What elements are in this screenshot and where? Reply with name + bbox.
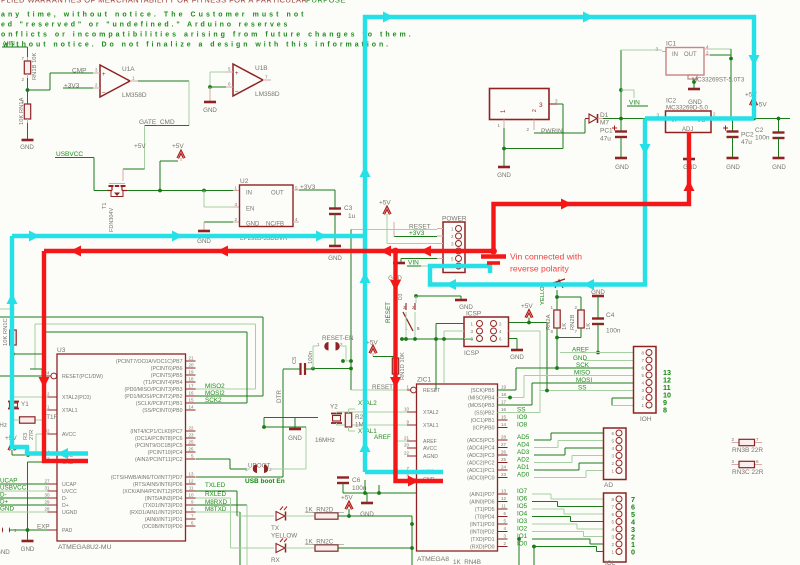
svg-text:16: 16 xyxy=(188,391,194,396)
pin digits 13-8 at IOH xyxy=(663,368,671,415)
svg-text:11: 11 xyxy=(189,486,194,491)
node C5 right xyxy=(311,367,351,371)
wire MISO staircase xyxy=(498,376,561,400)
wire POWER +3V3 xyxy=(394,222,437,237)
svg-text:28: 28 xyxy=(501,435,507,440)
svg-text:12: 12 xyxy=(501,496,507,501)
svg-text:(PCINT7/OC0A/VOC1C)PB7: (PCINT7/OC0A/VOC1C)PB7 xyxy=(116,359,183,365)
net symbol L YELLOW xyxy=(540,279,565,305)
svg-text:IOL: IOL xyxy=(605,560,616,565)
capacitor PC1 47u xyxy=(600,119,627,158)
svg-text:TX: TX xyxy=(271,525,280,532)
ic ZIC1 left pins xyxy=(404,385,441,484)
svg-text:RN1D 10K: RN1D 10K xyxy=(400,352,406,380)
svg-text:GND: GND xyxy=(197,238,211,245)
svg-text:PAD: PAD xyxy=(62,528,73,534)
node PWRIN ground junction xyxy=(502,147,506,166)
svg-text:21: 21 xyxy=(188,356,194,361)
net label SCK xyxy=(560,362,634,369)
resistor RN2C 1K xyxy=(305,539,344,552)
svg-text:10K RN1A: 10K RN1A xyxy=(19,97,25,125)
wire VIN vertical to IC1 xyxy=(621,50,666,119)
ground at ICSP xyxy=(510,350,524,361)
svg-text:(T0)PD4: (T0)PD4 xyxy=(475,515,495,521)
svg-text:D+: D+ xyxy=(62,503,69,509)
svg-text:+5V: +5V xyxy=(341,495,353,502)
svg-text:C4: C4 xyxy=(606,312,615,319)
svg-text:47u: 47u xyxy=(741,139,752,146)
wire MOSI staircase xyxy=(498,383,561,405)
red arrows xyxy=(39,180,695,487)
svg-text:(AIN0)PD6: (AIN0)PD6 xyxy=(469,500,494,506)
connector POWER xyxy=(437,216,467,273)
svg-text:(INT1)PD3: (INT1)PD3 xyxy=(470,522,495,528)
net label AREF left of ZIC1 xyxy=(374,434,407,441)
+5V supply at POWER pin3 xyxy=(379,200,437,244)
pin digits 7-0 at IOL xyxy=(631,495,635,557)
svg-text:16: 16 xyxy=(501,407,507,412)
svg-text:+: + xyxy=(102,72,106,78)
net label 16MHz at Y1 xyxy=(0,422,7,429)
svg-text:GATE_CMD: GATE_CMD xyxy=(139,119,175,126)
svg-text:(ADC3)PC3: (ADC3)PC3 xyxy=(467,453,494,459)
svg-text:GND: GND xyxy=(497,172,511,179)
+5V supply at T1 xyxy=(160,143,185,191)
resistor RN2B 1K xyxy=(570,297,592,338)
svg-text:PLIED WARRANTIES OF MERCHANTAB: PLIED WARRANTIES OF MERCHANTABILITY OR F… xyxy=(1,0,307,5)
crystal Y2 xyxy=(330,404,355,426)
svg-text:GND: GND xyxy=(328,255,342,262)
svg-text:GND: GND xyxy=(0,549,10,556)
svg-text:VIN: VIN xyxy=(4,41,15,48)
svg-text:(INT4/ICP1/CLK0)PC7: (INT4/ICP1/CLK0)PC7 xyxy=(130,429,182,435)
node IC1 out junction xyxy=(729,57,733,61)
wire SS staircase xyxy=(498,389,561,413)
svg-text:15: 15 xyxy=(501,415,507,420)
svg-text:27R: 27R xyxy=(29,430,35,440)
svg-text:23: 23 xyxy=(188,433,194,438)
highlight cyan 5V path xyxy=(12,17,754,472)
svg-text:_: _ xyxy=(234,86,239,92)
wire UBOOT to Y2 gnd xyxy=(262,418,306,470)
wire U2 EN loop xyxy=(204,191,240,208)
svg-text:UGND: UGND xyxy=(62,510,78,516)
net label +3V3 at U1A xyxy=(64,83,80,90)
net label SS at IOH xyxy=(560,385,634,392)
svg-text:19: 19 xyxy=(188,370,194,375)
ground below C3 xyxy=(328,246,342,262)
net label 16MHz at Y2 xyxy=(315,437,335,444)
connector IOL xyxy=(604,493,627,565)
wire GATE_CMD down to T1 gate xyxy=(123,126,145,182)
svg-text:GND: GND xyxy=(20,144,34,151)
svg-text:XTAL1: XTAL1 xyxy=(423,423,439,429)
wire POWER RESET xyxy=(351,229,437,231)
svg-text:18: 18 xyxy=(501,392,507,397)
svg-text:GND: GND xyxy=(21,546,35,553)
wire IOL staircases xyxy=(532,494,604,552)
svg-text:27: 27 xyxy=(44,479,50,484)
diode D1 M7 xyxy=(585,112,609,127)
net label GND at IOH xyxy=(573,355,634,362)
net label TXLED xyxy=(196,482,238,491)
wire DTR net xyxy=(196,370,283,478)
svg-text:(PD0/MISO/PCINT3)PB3: (PD0/MISO/PCINT3)PB3 xyxy=(125,387,183,393)
svg-text:+5V: +5V xyxy=(172,143,184,150)
svg-text:VIN: VIN xyxy=(629,100,640,107)
wire RESET vertical xyxy=(351,230,407,391)
svg-text:XTAL2: XTAL2 xyxy=(358,400,377,407)
svg-text:17: 17 xyxy=(501,400,507,405)
net label M8RXD xyxy=(196,499,248,506)
net label D- left xyxy=(0,492,48,499)
svg-text:OUT: OUT xyxy=(684,52,697,58)
wire IC1 output to +5V rail xyxy=(709,49,731,119)
svg-text:XTAL2(PC0): XTAL2(PC0) xyxy=(62,395,91,401)
svg-text:(PCINT10)PC4: (PCINT10)PC4 xyxy=(148,450,183,456)
ground below PC1 xyxy=(615,158,629,171)
wire U1A output to GATE_CMD xyxy=(138,81,189,126)
svg-text:USBVCC: USBVCC xyxy=(0,485,27,492)
svg-text:LM358D: LM358D xyxy=(255,91,280,98)
svg-text:(MOSI)PB3: (MOSI)PB3 xyxy=(468,403,495,409)
wire IC1 tab to ground xyxy=(693,79,695,88)
document disclaimer text xyxy=(1,0,414,49)
svg-text:T1: T1 xyxy=(102,203,108,209)
svg-text:C3: C3 xyxy=(344,205,353,212)
svg-text:UCAP: UCAP xyxy=(62,482,77,488)
wire RXLED down to LED xyxy=(231,498,275,548)
svg-text:(T1)PD5: (T1)PD5 xyxy=(475,507,495,513)
svg-text:(RTS/AIN5/INT6)PD6: (RTS/AIN5/INT6)PD6 xyxy=(133,482,183,488)
net label UGND left xyxy=(0,506,48,513)
svg-text:RXLED: RXLED xyxy=(205,491,226,498)
ground below EXP xyxy=(21,530,35,553)
ground below RN1A xyxy=(20,140,34,151)
annotation Vin reverse polarity xyxy=(510,252,582,274)
wire ZIC1 supply rail xyxy=(343,480,416,495)
ic U3 right pins xyxy=(111,356,196,531)
svg-text:23: 23 xyxy=(501,472,507,477)
+5V supply symbol top right xyxy=(745,92,767,119)
svg-text:25: 25 xyxy=(188,440,194,445)
svg-text:XTAL1: XTAL1 xyxy=(62,408,78,414)
net label UCAP xyxy=(0,478,48,485)
node VIN at PC1 xyxy=(619,117,623,121)
svg-text:AGND: AGND xyxy=(423,454,438,460)
regulator U2 LP2985 xyxy=(234,178,299,242)
ic ZIC1 ATMEGA box xyxy=(417,377,498,564)
wire VIN rail xyxy=(603,118,666,120)
wire RN2D to +5V rail xyxy=(338,514,412,518)
wire POWER pin5 GND xyxy=(401,259,437,263)
svg-text:Y1: Y1 xyxy=(21,401,29,408)
svg-text:+3V3: +3V3 xyxy=(409,230,425,237)
svg-text:(OC1)PB1: (OC1)PB1 xyxy=(471,418,495,424)
wire M8TXD down xyxy=(239,512,241,565)
resistor RN2D 1K xyxy=(305,507,344,520)
ground below C2 xyxy=(772,158,786,171)
svg-text:UVCC: UVCC xyxy=(62,489,77,495)
svg-text:1K_RN4B: 1K_RN4B xyxy=(453,559,481,565)
svg-text:(RXD1/AIN1/INT2)PD2: (RXD1/AIN1/INT2)PD2 xyxy=(129,510,182,516)
regulator IC1 MC33269ST xyxy=(655,41,744,84)
svg-text:(MISO)PB4: (MISO)PB4 xyxy=(468,396,495,402)
wire U3 AVCC xyxy=(36,434,48,455)
svg-text:IO3: IO3 xyxy=(517,518,528,525)
wire +5V rail right xyxy=(658,117,790,119)
wire RX led to RN2C xyxy=(286,547,316,549)
cyan arrows xyxy=(7,12,760,460)
svg-text:XTAL1: XTAL1 xyxy=(358,428,377,435)
svg-text:RX: RX xyxy=(271,557,281,564)
net label USBVCC xyxy=(55,151,88,158)
svg-text:19: 19 xyxy=(501,385,507,390)
resistor R3 27R xyxy=(14,410,59,440)
svg-text:29: 29 xyxy=(44,500,50,505)
ground at C6 rail xyxy=(366,493,368,502)
svg-text:NC/FB: NC/FB xyxy=(266,222,284,228)
wire ICSP pin4 xyxy=(509,331,541,391)
node RN2A top xyxy=(555,295,581,299)
svg-text:RESET: RESET xyxy=(372,384,393,391)
resistor RN1C 10K pullup xyxy=(3,309,16,354)
ground below PC2 xyxy=(726,158,740,171)
net label MISO xyxy=(560,370,634,377)
node VIN label junction xyxy=(619,88,634,98)
net label XTAL1 at Y2 xyxy=(355,425,407,435)
svg-text:D-: D- xyxy=(0,492,7,499)
svg-text:U2: U2 xyxy=(240,178,249,185)
node U2 EN junction xyxy=(202,189,206,193)
svg-text:IO6: IO6 xyxy=(517,496,528,503)
svg-text:MC33269ST-5.0T3: MC33269ST-5.0T3 xyxy=(692,77,745,84)
op-amp U1B LM358D xyxy=(226,64,280,98)
svg-text:GND: GND xyxy=(0,506,14,513)
svg-text:XTAL2: XTAL2 xyxy=(423,410,439,416)
jumper RESET-EN xyxy=(313,335,354,369)
svg-text:AVCC: AVCC xyxy=(423,446,437,452)
svg-text:EN: EN xyxy=(246,207,254,213)
crystal Y1 xyxy=(8,397,48,420)
svg-text:PURPOSE: PURPOSE xyxy=(306,0,346,5)
svg-text:18: 18 xyxy=(188,377,194,382)
node U3 VCC junction xyxy=(26,453,30,457)
ground below U2 xyxy=(197,231,211,245)
connector ICSP xyxy=(464,311,509,358)
svg-text:ATMEGA8U2-MU: ATMEGA8U2-MU xyxy=(58,544,112,551)
net label MISO2 xyxy=(196,383,256,390)
svg-text:ATMEGA8: ATMEGA8 xyxy=(417,556,449,563)
svg-text:(AIN0/INT1)PD1: (AIN0/INT1)PD1 xyxy=(145,517,183,523)
svg-text:(AIN2/PCINT11)PC2: (AIN2/PCINT11)PC2 xyxy=(135,457,183,463)
node divider junction xyxy=(26,88,30,92)
wire IC2 ADJ to ground xyxy=(688,133,690,159)
svg-text:(ADC0)PC0: (ADC0)PC0 xyxy=(467,476,494,482)
ground symbol near C6 xyxy=(360,503,374,518)
svg-text:10: 10 xyxy=(404,407,410,412)
resistor R2 1M xyxy=(345,409,363,431)
ground at POWER xyxy=(388,263,405,282)
wire TX led to RN2D xyxy=(286,515,316,517)
svg-text:VIN: VIN xyxy=(408,260,419,267)
svg-text:16MHz: 16MHz xyxy=(315,437,335,444)
svg-text:C6: C6 xyxy=(352,477,361,484)
svg-text:_: _ xyxy=(101,87,106,93)
svg-text:GND: GND xyxy=(246,222,260,228)
resistor RN1B 10K xyxy=(21,52,38,82)
net label USB boot En xyxy=(245,478,285,485)
ground below IC1 xyxy=(688,89,702,106)
svg-text:10: 10 xyxy=(188,493,194,498)
svg-text:10K RN1C: 10K RN1C xyxy=(3,318,9,346)
svg-text:AD3: AD3 xyxy=(517,449,530,456)
wire U1B feedback loop xyxy=(210,72,226,87)
svg-text:IO5: IO5 xyxy=(517,503,528,510)
svg-text:IO7: IO7 xyxy=(517,488,528,495)
svg-text:FDN304V: FDN304V xyxy=(109,208,115,232)
svg-text:(TXD1/INT3)PD3: (TXD1/INT3)PD3 xyxy=(143,503,183,509)
svg-text:GND: GND xyxy=(203,107,217,114)
svg-text:AD4: AD4 xyxy=(517,442,530,449)
wire U3 reset net xyxy=(0,375,48,377)
net label M8TXD xyxy=(196,506,241,513)
svg-text:PC2: PC2 xyxy=(741,132,754,139)
svg-text:EXP: EXP xyxy=(37,524,50,531)
svg-text:IN: IN xyxy=(672,52,678,58)
net label USBVCC left xyxy=(0,485,48,492)
svg-text:IO8: IO8 xyxy=(517,422,528,429)
led TX yellow xyxy=(271,507,297,540)
net label VIN xyxy=(2,41,18,48)
net label +3V3 at POWER xyxy=(409,230,425,237)
svg-text:(INT5/AIN3)PD4: (INT5/AIN3)PD4 xyxy=(145,496,183,502)
wire node to U1A CMP input xyxy=(28,73,94,90)
svg-text:PWRIN: PWRIN xyxy=(541,128,563,135)
svg-text:RN1B 10K: RN1B 10K xyxy=(32,52,38,80)
svg-text:13: 13 xyxy=(501,489,507,494)
diode D3 label xyxy=(398,293,404,300)
ground at button xyxy=(455,300,473,311)
svg-text:(PCINT5)PB5: (PCINT5)PB5 xyxy=(151,373,183,379)
svg-text:USB boot En: USB boot En xyxy=(245,478,285,485)
svg-text:RN2B: RN2B xyxy=(570,314,576,330)
svg-text:GND: GND xyxy=(615,164,629,171)
resistor RN1D 10K pullup xyxy=(392,352,406,390)
node U1B inverting input xyxy=(208,85,212,89)
svg-text:USBVCC: USBVCC xyxy=(56,151,83,158)
svg-text:Vin connected with: Vin connected with xyxy=(510,252,582,262)
svg-text:RESET: RESET xyxy=(385,302,392,323)
wire ICSP pin2 +5V xyxy=(509,321,548,391)
svg-text:IO9: IO9 xyxy=(517,414,528,421)
wire U3 GND down xyxy=(28,462,48,530)
net label +5V near gate wire xyxy=(134,143,146,150)
ground below PWRIN xyxy=(497,167,511,179)
svg-text:IO2: IO2 xyxy=(517,526,528,533)
svg-text:AREF: AREF xyxy=(374,434,391,441)
svg-text:(SS/PCINT0)PB0: (SS/PCINT0)PB0 xyxy=(142,408,182,414)
capacitor C4 100n xyxy=(592,312,621,353)
wire SCK staircase xyxy=(498,368,561,390)
svg-text:(PD1/MOSI/PCINT2)PB2: (PD1/MOSI/PCINT2)PB2 xyxy=(125,394,183,400)
wire TXLED down to LED xyxy=(237,491,274,516)
net label MOSI2 xyxy=(196,390,264,397)
ground below IC2 ADJ xyxy=(683,159,697,171)
svg-text:RESET(PC1/DW): RESET(PC1/DW) xyxy=(62,374,103,380)
svg-text:(T1/PCINT4)PB4: (T1/PCINT4)PB4 xyxy=(143,380,182,386)
svg-text:AD5: AD5 xyxy=(517,434,530,441)
svg-text:(INT0)PD2: (INT0)PD2 xyxy=(470,530,495,536)
svg-text:D-: D- xyxy=(62,496,68,502)
svg-text:+5V: +5V xyxy=(521,303,533,310)
svg-text:D1: D1 xyxy=(600,112,609,119)
svg-text:16MHz: 16MHz xyxy=(0,422,7,429)
wire UBOOT net xyxy=(196,459,250,469)
net label D+ left xyxy=(0,499,48,506)
resistor RN3B 22R xyxy=(731,437,763,454)
capacitor C6 100n xyxy=(337,477,367,493)
svg-text:20: 20 xyxy=(188,363,194,368)
svg-text:11: 11 xyxy=(501,504,506,509)
svg-text:ICSP: ICSP xyxy=(464,350,479,357)
svg-text:+: + xyxy=(235,71,239,77)
net label VIN at POWER xyxy=(407,260,421,267)
svg-text:IC1: IC1 xyxy=(666,41,677,48)
net label CMP xyxy=(72,68,86,75)
ic U3 left pins xyxy=(44,371,103,535)
svg-text:GND: GND xyxy=(726,164,740,171)
svg-text:LM358D: LM358D xyxy=(122,92,147,99)
svg-text:ICSP: ICSP xyxy=(466,311,481,318)
capacitor PC2 47u xyxy=(723,119,754,158)
svg-text:(ADC1)PC1: (ADC1)PC1 xyxy=(467,468,494,474)
+5V supply at ICSP xyxy=(521,303,533,323)
svg-text:M7: M7 xyxy=(600,120,609,127)
svg-text:(PCINT6)PB6: (PCINT6)PB6 xyxy=(151,366,183,372)
svg-text:22: 22 xyxy=(188,426,194,431)
svg-text:100n: 100n xyxy=(755,135,770,142)
net label XTAL2 at Y2 xyxy=(355,400,407,412)
net label MOSI xyxy=(560,377,634,384)
svg-text:RN2A: RN2A xyxy=(546,314,552,330)
svg-text:8: 8 xyxy=(663,406,667,415)
svg-text:reverse polarity: reverse polarity xyxy=(510,264,569,274)
svg-text:PC1: PC1 xyxy=(600,128,613,135)
svg-text:14: 14 xyxy=(188,405,194,410)
svg-text:ed "reserved" or "undefined.": ed "reserved" or "undefined." Arduino re… xyxy=(1,22,290,29)
wire RN2C join xyxy=(338,516,414,565)
svg-text:RESET-EN: RESET-EN xyxy=(322,335,354,342)
wire ICSP pin6 ground xyxy=(509,339,518,350)
wire M8RXD down xyxy=(246,505,248,565)
svg-text:D+: D+ xyxy=(0,499,9,506)
svg-text:GND: GND xyxy=(510,354,524,361)
svg-text:47u: 47u xyxy=(600,136,611,143)
svg-text:25: 25 xyxy=(501,457,507,462)
svg-text:(SCK)PB5: (SCK)PB5 xyxy=(471,388,495,394)
transistor T1 FDN304V p-mosfet xyxy=(102,184,127,233)
resistor RN1A 10K xyxy=(19,97,31,139)
svg-text:AD: AD xyxy=(604,482,613,489)
svg-text:(ICP)PB0: (ICP)PB0 xyxy=(473,426,495,432)
svg-text:28: 28 xyxy=(44,507,50,512)
resistor RN2A 1K xyxy=(546,290,568,338)
wire T1 drain to U2 IN xyxy=(127,190,240,192)
svg-text:(OC0B/INT0)PD0: (OC0B/INT0)PD0 xyxy=(142,524,182,530)
svg-text:13: 13 xyxy=(188,472,194,477)
svg-text:26: 26 xyxy=(501,450,507,455)
